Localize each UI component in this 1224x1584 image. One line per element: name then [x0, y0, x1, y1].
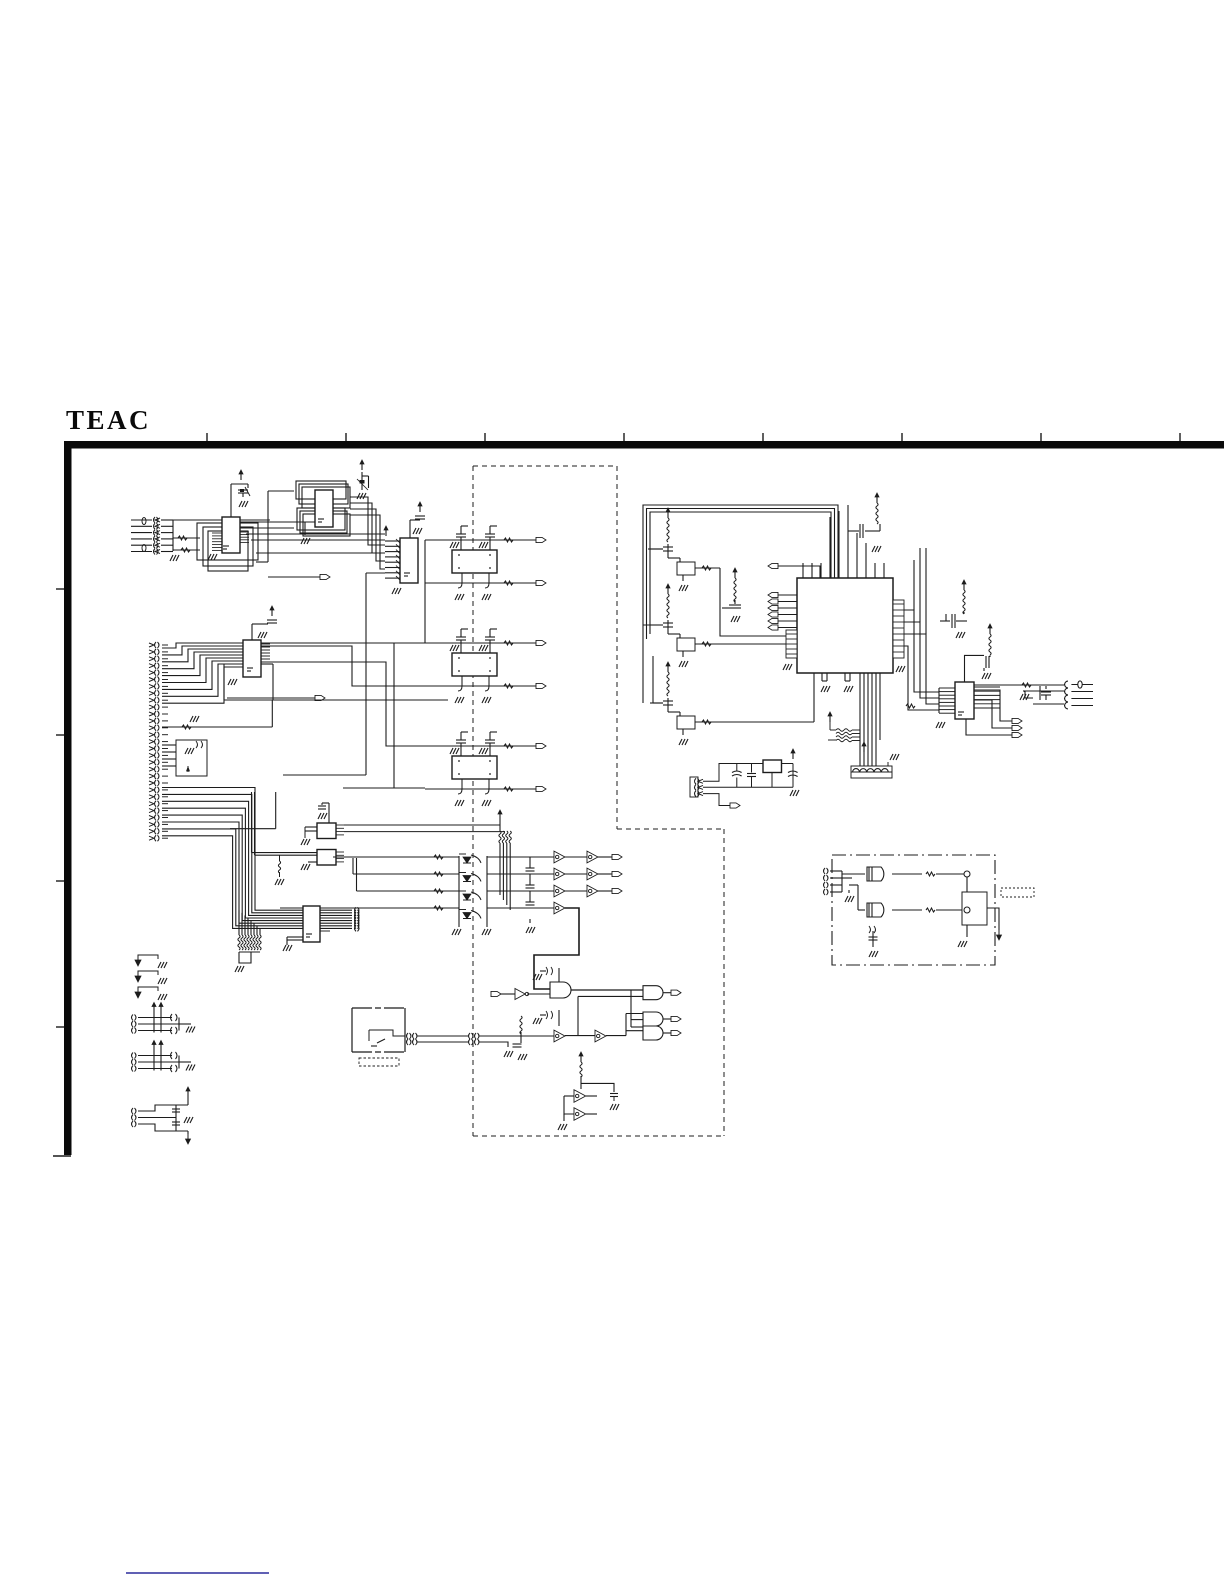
svg-text:TEAC: TEAC — [66, 405, 151, 435]
